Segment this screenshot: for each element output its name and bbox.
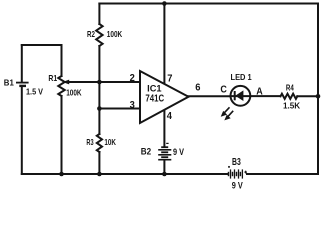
svg-text:C: C: [220, 85, 227, 96]
wire B2 bottom lead: [163, 160, 165, 174]
battery B1 plates: [16, 83, 29, 86]
svg-text:IC1: IC1: [147, 83, 161, 93]
wire pin 7: [163, 4, 165, 85]
wire node link pin2-pin3: [98, 82, 100, 109]
svg-text:9 V: 9 V: [173, 147, 184, 157]
battery B3 plates: [229, 169, 243, 178]
node junction link-pin3-R3: [97, 106, 102, 111]
battery B2 plates: [158, 143, 171, 159]
wire R4 to right rail: [297, 95, 318, 97]
svg-text:741C: 741C: [145, 93, 164, 104]
wire pin 6 output to LED and R4: [189, 95, 231, 97]
LED 1 diode triangle: [235, 90, 243, 101]
node junction B2 bottom rail: [162, 172, 167, 177]
node junction R4 right rail: [316, 94, 321, 99]
svg-text:4: 4: [167, 111, 173, 122]
svg-text:1.5K: 1.5K: [283, 101, 301, 111]
node junction R3 bottom rail: [97, 172, 102, 177]
svg-text:B1: B1: [4, 77, 14, 87]
svg-text:100K: 100K: [66, 88, 82, 98]
LED 1 diode cathode bar: [234, 91, 236, 100]
LED light arrow 1: [221, 107, 230, 116]
svg-text:3: 3: [130, 100, 136, 111]
svg-text:2: 2: [130, 73, 136, 84]
svg-text:LED 1: LED 1: [231, 73, 253, 82]
wire left loop top: [22, 44, 62, 46]
wire R2 bottom lead: [98, 46, 100, 82]
svg-text:R4: R4: [286, 82, 294, 92]
svg-text:7: 7: [167, 74, 173, 85]
R1 wiper arrowhead: [62, 80, 69, 85]
wire B1 branch top: [21, 45, 23, 82]
resistor R3: [97, 134, 102, 152]
svg-text:A: A: [256, 87, 263, 98]
svg-text:R1: R1: [48, 73, 57, 83]
wire top rail: [99, 3, 318, 5]
wire pin 4: [163, 110, 165, 146]
svg-text:B3: B3: [232, 157, 241, 168]
svg-text:R3: R3: [86, 137, 93, 147]
wire R3 top lead: [98, 109, 100, 135]
svg-text:100K: 100K: [107, 29, 123, 39]
node junction R2-wiper-pin2: [97, 80, 102, 85]
B3 plus sign: [244, 171, 247, 174]
resistor R2: [96, 24, 102, 46]
resistor R1: [58, 76, 64, 96]
op-amp U1 triangle: [140, 71, 189, 123]
wire R1 top lead: [61, 45, 63, 76]
svg-text:R2: R2: [87, 29, 95, 39]
wire R3 bottom lead: [98, 152, 100, 174]
wire right rail: [317, 4, 319, 175]
wire pin 3: [99, 108, 140, 110]
LED light arrow 2: [224, 111, 233, 121]
B3 minus dot: [228, 166, 230, 168]
svg-text:9 V: 9 V: [232, 181, 243, 191]
node junction R1 bottom rail: [59, 172, 64, 177]
svg-text:6: 6: [195, 82, 201, 93]
svg-text:1.5 V: 1.5 V: [26, 86, 43, 96]
wire B1 branch bottom: [21, 87, 23, 175]
wire R2 top lead: [98, 4, 100, 25]
svg-text:10K: 10K: [104, 137, 116, 147]
wire R1 wiper to pin 2: [68, 81, 140, 83]
wire bottom rail left of B3: [22, 173, 228, 175]
svg-text:B2: B2: [141, 147, 151, 157]
wire bottom rail right of B3: [247, 173, 318, 175]
node junction pin7 top rail: [162, 1, 167, 6]
wire R1 bottom lead: [61, 96, 63, 174]
resistor R4: [281, 94, 298, 99]
LED 1 circle: [231, 86, 251, 106]
